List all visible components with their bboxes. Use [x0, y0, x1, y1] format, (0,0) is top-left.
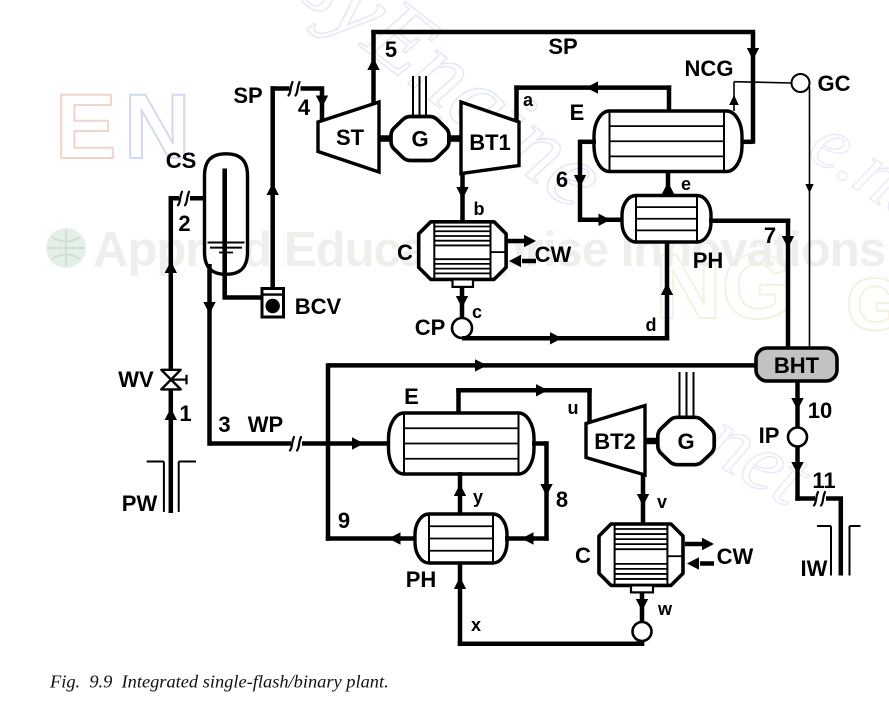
svg-text:ST: ST — [336, 125, 365, 150]
svg-text:w: w — [657, 599, 673, 619]
svg-text:c: c — [472, 302, 482, 322]
svg-text:SP: SP — [548, 34, 577, 59]
svg-text:10: 10 — [808, 398, 832, 423]
svg-text:C: C — [397, 240, 413, 265]
svg-text:BT2: BT2 — [594, 429, 636, 454]
svg-text:G: G — [677, 429, 694, 454]
svg-text:PW: PW — [122, 491, 158, 516]
svg-text:v: v — [657, 492, 667, 512]
svg-text:BT1: BT1 — [469, 130, 511, 155]
svg-text:5: 5 — [385, 37, 397, 62]
svg-text:x: x — [471, 615, 481, 635]
svg-text:PH: PH — [693, 248, 724, 273]
svg-text:3: 3 — [218, 412, 230, 437]
svg-text:C: C — [575, 543, 591, 568]
svg-text:a: a — [523, 90, 534, 110]
svg-text:d: d — [646, 315, 657, 335]
svg-text:1: 1 — [179, 401, 191, 426]
svg-text:PH: PH — [406, 567, 437, 592]
svg-text:7: 7 — [764, 223, 776, 248]
svg-text:b: b — [474, 199, 485, 219]
svg-text:NCG: NCG — [685, 56, 734, 81]
svg-text:8: 8 — [556, 487, 568, 512]
svg-text:11: 11 — [812, 468, 835, 493]
svg-text:u: u — [568, 398, 579, 418]
svg-text:WV: WV — [118, 367, 154, 392]
svg-text:CW: CW — [717, 544, 754, 569]
svg-text:G: G — [411, 127, 428, 152]
svg-text:IP: IP — [759, 423, 780, 448]
svg-text:IW: IW — [801, 556, 828, 581]
svg-text:E: E — [55, 76, 116, 178]
svg-text:CP: CP — [415, 315, 446, 340]
svg-text:9: 9 — [338, 508, 350, 533]
svg-text:BHT: BHT — [774, 353, 820, 378]
svg-text:E: E — [570, 100, 585, 125]
svg-text:GC: GC — [818, 71, 851, 96]
svg-text:y: y — [473, 487, 483, 507]
svg-text:CW: CW — [535, 242, 572, 267]
svg-text:Fig. 9.9 Integrated single-f: Fig. 9.9 Integrated single-flash/binary … — [49, 672, 389, 692]
svg-text:6: 6 — [556, 167, 568, 192]
svg-text:E: E — [404, 384, 419, 409]
svg-text:2: 2 — [178, 211, 190, 236]
svg-text:CS: CS — [166, 148, 197, 173]
svg-text:4: 4 — [298, 95, 311, 120]
svg-text:BCV: BCV — [295, 294, 342, 319]
svg-text:e: e — [681, 174, 691, 194]
svg-text:SP: SP — [233, 83, 262, 108]
svg-text:WP: WP — [248, 412, 283, 437]
